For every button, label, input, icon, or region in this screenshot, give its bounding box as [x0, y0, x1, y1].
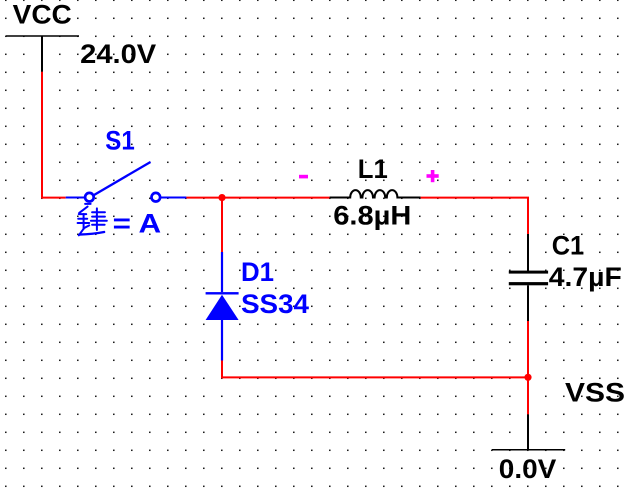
switch S1	[66, 162, 187, 202]
diode D1	[206, 252, 239, 361]
power symbol VSS	[492, 414, 565, 449]
svg-text:0.0V: 0.0V	[499, 454, 557, 484]
svg-text:24.0V: 24.0V	[80, 39, 156, 69]
wire C1 to VSS node	[527, 321, 529, 377]
inductor L1	[330, 190, 421, 197]
wire S1 to node	[186, 197, 222, 199]
label key = A	[78, 204, 107, 235]
wire junction to VSS symbol	[527, 377, 529, 414]
capacitor C1	[509, 234, 548, 321]
svg-text:L1: L1	[358, 154, 388, 184]
probe polarity plus	[427, 170, 439, 182]
wire D1 to VSS node	[222, 361, 528, 378]
svg-text:6.8µH: 6.8µH	[333, 201, 411, 231]
svg-text:4.7µF: 4.7µF	[549, 262, 622, 292]
svg-text:C1: C1	[552, 231, 585, 261]
wire L1 to C1	[421, 198, 528, 234]
svg-text:SS34: SS34	[241, 289, 309, 319]
wire junction to D1	[221, 198, 223, 252]
svg-text:= A: = A	[113, 209, 162, 239]
wire junction to L1	[222, 197, 330, 199]
probe polarity minus	[299, 175, 308, 179]
svg-text:VSS: VSS	[565, 378, 625, 408]
svg-text:VCC: VCC	[13, 0, 72, 30]
power symbol VCC	[6, 36, 79, 72]
wire VCC to S1	[42, 72, 66, 198]
junction node S1/L1/D1	[218, 194, 225, 201]
svg-text:S1: S1	[105, 126, 135, 156]
junction node VSS	[524, 374, 531, 381]
svg-text:D1: D1	[241, 257, 274, 287]
